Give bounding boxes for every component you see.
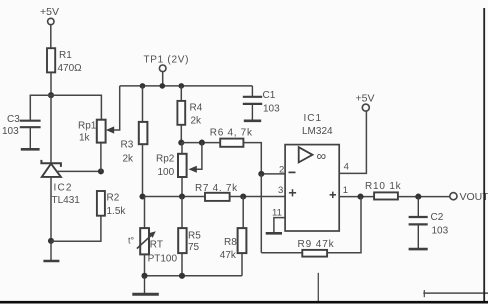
resistor R8 47k	[220, 197, 247, 276]
wire R4 bottom	[180, 125, 182, 143]
svg-text:103: 103	[2, 126, 19, 137]
wire feedback right leg	[327, 197, 361, 253]
node R3 top junction	[140, 83, 146, 89]
svg-text:4: 4	[344, 162, 349, 173]
capacitor C3 103	[2, 114, 41, 148]
svg-text:3: 3	[278, 185, 283, 196]
wire pin3 rail	[143, 196, 286, 198]
node R4/Rp2 junction	[178, 140, 184, 146]
resistor R5 75	[178, 197, 201, 276]
node RT ground junction	[141, 273, 147, 279]
svg-text:103: 103	[432, 226, 449, 237]
svg-text:RT: RT	[150, 240, 163, 251]
frame bottom border	[0, 301, 488, 304]
wire feedback bottom	[261, 252, 302, 254]
capacitor C2 103	[409, 197, 449, 248]
node R3/RT junction	[139, 193, 145, 199]
svg-text:t°: t°	[128, 236, 135, 246]
potentiometer Rp2 100	[156, 143, 187, 179]
wire R10 to VOUT	[398, 196, 450, 198]
svg-text:1k: 1k	[79, 133, 91, 144]
svg-text:470Ω: 470Ω	[58, 63, 83, 74]
wire R3 top	[142, 86, 144, 122]
node inverting input junction	[258, 171, 264, 177]
node C2 junction	[415, 194, 421, 200]
wire R4 top	[180, 86, 182, 101]
wire output pin1	[339, 196, 374, 198]
node Rp2/R5 junction	[179, 193, 185, 199]
svg-text:1: 1	[343, 185, 348, 196]
svg-text:TL431: TL431	[52, 195, 81, 206]
svg-text:2: 2	[279, 165, 284, 176]
wire IC2 anode down	[50, 177, 52, 241]
frame right border	[483, 8, 485, 303]
wire ground rail bottom	[145, 275, 243, 277]
wire TP1 rail (bus B)	[120, 85, 253, 87]
ground (pin 11)	[266, 232, 282, 235]
capacitor C1 103	[243, 86, 280, 120]
svg-text:+5V: +5V	[356, 93, 375, 105]
test point TP1 (2V)	[144, 55, 190, 86]
svg-text:∞: ∞	[317, 149, 327, 164]
ground (C1)	[244, 120, 261, 123]
node TP1 junction	[160, 83, 166, 89]
svg-text:Rp1: Rp1	[78, 121, 97, 132]
node VOUT terminal	[450, 191, 488, 203]
wire Rp1 bottom to junction	[100, 143, 102, 172]
wire Rp2 bottom to pin3 rail	[181, 177, 183, 197]
resistor R4 2k	[177, 101, 202, 127]
wire node A down to IC2	[50, 95, 52, 163]
wire +5V to R1	[50, 25, 52, 48]
op-amp U1 IC1 LM324	[272, 113, 349, 231]
potentiometer Rp1 1k	[78, 120, 106, 144]
node output junction	[357, 194, 363, 200]
svg-text:75: 75	[188, 242, 200, 253]
svg-text:C1: C1	[263, 90, 276, 101]
wire IC2 ref to R2 node	[57, 170, 101, 172]
wire pin11 step	[274, 218, 285, 233]
svg-text:R1: R1	[59, 50, 72, 61]
svg-text:R6 4, 7k: R6 4, 7k	[210, 128, 253, 139]
wire R2 bottom to ground node	[51, 216, 101, 242]
svg-text:47k: 47k	[220, 250, 237, 261]
node R5 ground junction	[179, 273, 185, 279]
node +5V right supply	[356, 93, 375, 112]
wire R1 to node A	[50, 72, 52, 95]
wiper arrow Rp2	[189, 143, 202, 173]
wire pin4 to +5V	[339, 111, 366, 173]
wire R6 to pin2	[243, 143, 285, 174]
svg-text:2k: 2k	[191, 116, 203, 127]
node R4 top junction	[179, 83, 185, 89]
svg-text:LM324: LM324	[302, 126, 333, 137]
svg-text:R4: R4	[190, 103, 203, 114]
svg-text:R3: R3	[121, 140, 134, 151]
wire bus A (R1 node rail)	[30, 95, 101, 121]
resistor R6 4.7k	[210, 128, 253, 147]
svg-text:R10 1k: R10 1k	[365, 181, 402, 192]
thermistor RT PT100	[128, 197, 178, 276]
svg-text:IC2: IC2	[54, 183, 73, 194]
node R7/R8 junction	[240, 193, 246, 199]
svg-text:2k: 2k	[123, 153, 135, 164]
ground (sensor rail)	[132, 276, 159, 294]
node Rp1/R2 junction	[98, 168, 104, 174]
wiper arrow Rp1	[106, 126, 114, 133]
node +5V left supply	[40, 6, 59, 25]
wire R3 bottom to pin3 rail	[142, 144, 144, 196]
svg-text:103: 103	[263, 104, 280, 115]
resistor R9 47k	[298, 239, 335, 256]
svg-text:R5: R5	[188, 231, 201, 242]
svg-text:R9 47k: R9 47k	[298, 239, 335, 250]
wire stray vertical below R9	[317, 273, 319, 302]
ground (IC2)	[43, 241, 59, 261]
node IC2-R2 bottom junction	[48, 238, 54, 244]
wire R4-R6 link	[181, 142, 220, 144]
resistor R7 4.7k	[195, 183, 238, 201]
svg-text:C3: C3	[7, 114, 20, 125]
ground (C2)	[409, 248, 428, 251]
resistor R1 470ohm	[47, 48, 82, 74]
resistor R3 2k	[121, 122, 148, 164]
transistor/shunt-ref IC2 TL431 (zener symbol)	[41, 160, 80, 206]
svg-text:PT100: PT100	[148, 254, 178, 265]
node Rp2 wiper junction	[199, 140, 205, 146]
wire bottom-right rule	[423, 292, 488, 294]
svg-text:TP1 (2V): TP1 (2V)	[144, 55, 190, 66]
svg-text:100: 100	[158, 167, 175, 178]
node A junction	[48, 92, 54, 98]
svg-text:C2: C2	[431, 212, 444, 223]
resistor R10 1k	[365, 181, 402, 200]
wire Rp1 wiper to TP1 rail	[113, 86, 120, 130]
svg-text:+5V: +5V	[40, 6, 59, 18]
svg-text:R2: R2	[107, 193, 120, 204]
svg-text:R8: R8	[224, 237, 237, 248]
svg-text:Rp2: Rp2	[156, 154, 175, 165]
svg-text:1.5k: 1.5k	[107, 206, 127, 217]
ground (C3)	[21, 148, 40, 151]
wire bottom-right tick	[423, 290, 425, 297]
wire feedback left leg	[260, 174, 262, 253]
svg-text:R7 4. 7k: R7 4. 7k	[195, 183, 238, 194]
resistor R2 1.5k	[97, 191, 127, 217]
svg-text:IC1: IC1	[304, 113, 323, 124]
